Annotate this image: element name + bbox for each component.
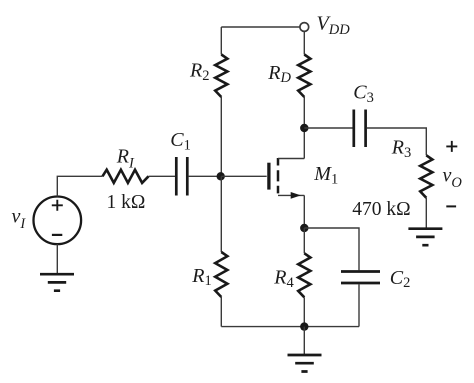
wire gate node to R1 [220,176,222,252]
source vI circle [34,197,82,245]
transistor M1 source lead [278,195,304,228]
wire top rail [221,26,300,28]
wire C3 to R3 [367,128,426,155]
power terminal VDD [300,23,309,32]
wire bottom rail [221,326,359,328]
wire R2 top [220,27,222,55]
junction bottom node [300,322,308,330]
wire RD to drain node [303,97,305,128]
resistor RD [298,55,310,98]
wire vI top to RI [57,176,102,196]
wire VDD stub to RD [303,32,305,55]
ground under R3 [408,229,442,246]
junction source node [300,224,308,232]
transistor M1 source arrow [291,192,301,199]
junction drain node [300,124,308,132]
wire C2 to bottom rail [358,284,360,326]
resistor R1 [215,252,227,297]
vO minus sign [446,205,456,207]
capacitor C2 [341,272,380,284]
svg-text:1 kΩ: 1 kΩ [107,192,146,213]
resistor R3 [420,155,432,198]
vI minus sign [52,234,62,236]
resistor RI [103,170,149,183]
transistor M1 gate bar [267,163,270,190]
wire source node to C2 branch [304,228,359,270]
vI plus sign [52,200,63,211]
capacitor C1 [176,157,187,196]
wire R1 to bottom rail [220,297,222,327]
wire bottom node to ground [303,327,305,355]
transistor M1 drain lead [278,128,304,159]
ground under bottom node [288,355,322,372]
wire RI to C1 [149,175,176,177]
wire vI to ground [56,244,58,274]
resistor R4 [298,253,310,297]
transistor M1 channel dashes [277,158,280,193]
wire R3 to ground [425,198,427,229]
ground under vI [40,274,74,291]
wire R2 to gate node [220,97,222,176]
junction gate node [217,172,225,180]
resistor R2 [215,55,227,98]
wire C1 to gate node [189,175,222,177]
wire gate node to M1 gate [221,175,266,177]
svg-text:470 kΩ: 470 kΩ [352,199,410,220]
wire R4 to bottom node [303,297,305,326]
wire source node to R4 [303,228,305,253]
capacitor C3 [354,110,366,148]
vO plus sign [446,141,457,152]
wire drain node to C3 [304,127,352,129]
